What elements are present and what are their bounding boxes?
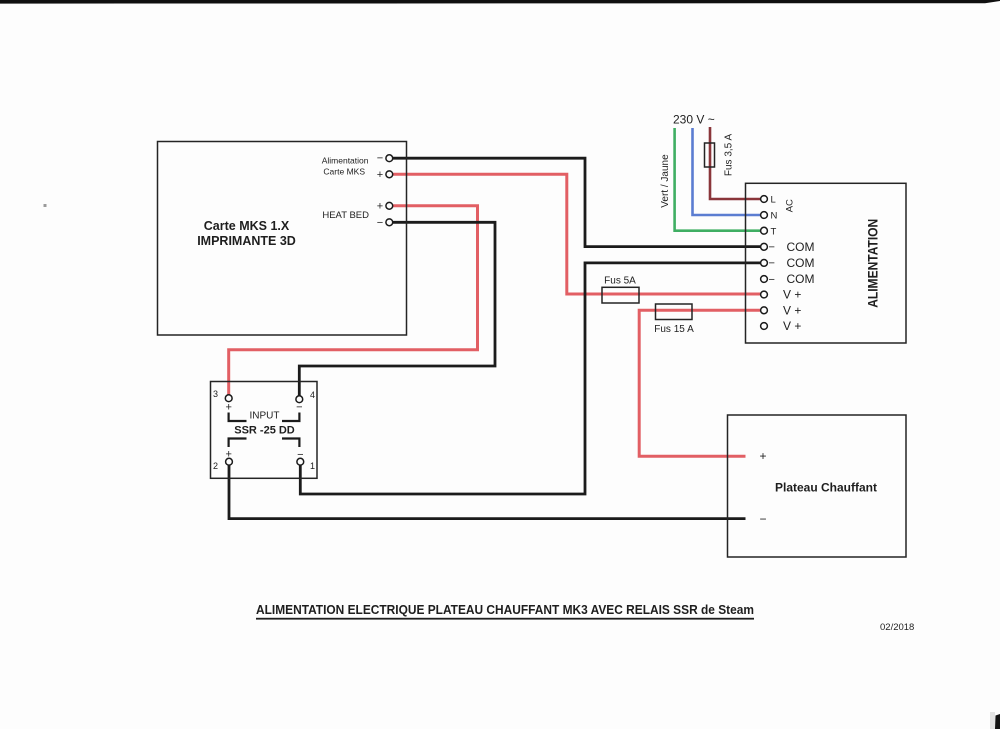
svg-text:SSR -25 DD: SSR -25 DD [234, 425, 295, 437]
svg-text:INPUT: INPUT [250, 410, 280, 421]
svg-text:Carte MKS: Carte MKS [323, 167, 365, 177]
svg-text:+: + [377, 201, 383, 213]
svg-text:ALIMENTATION ELECTRIQUE PLATEA: ALIMENTATION ELECTRIQUE PLATEAU CHAUFFAN… [256, 602, 754, 617]
svg-text:COM: COM [787, 272, 815, 286]
svg-text:AC: AC [785, 199, 796, 212]
svg-text:Fus 15 A: Fus 15 A [654, 324, 694, 335]
svg-text:−: − [297, 449, 303, 461]
svg-text:Fus 5A: Fus 5A [604, 276, 636, 287]
svg-text:3: 3 [213, 389, 218, 399]
svg-text:−: − [377, 217, 383, 229]
svg-text:COM: COM [787, 256, 815, 270]
svg-text:230 V ~: 230 V ~ [673, 113, 715, 127]
svg-text:Plateau Chauffant: Plateau Chauffant [775, 481, 877, 495]
svg-text:Fus 3,5 A: Fus 3,5 A [724, 134, 735, 177]
svg-text:4: 4 [310, 390, 315, 400]
svg-text:HEAT BED: HEAT BED [322, 210, 369, 221]
svg-text:−: − [769, 242, 775, 254]
svg-text:ALIMENTATION: ALIMENTATION [865, 219, 881, 308]
svg-text:+: + [225, 448, 231, 460]
svg-text:Carte MKS 1.X: Carte MKS 1.X [204, 219, 290, 233]
svg-text:02/2018: 02/2018 [880, 622, 914, 633]
svg-text:N: N [771, 211, 778, 222]
svg-text:L: L [771, 195, 776, 206]
svg-text:−: − [296, 402, 302, 414]
svg-text:2: 2 [213, 461, 218, 471]
svg-text:COM: COM [787, 240, 815, 254]
svg-text:+: + [759, 449, 766, 463]
svg-text:+: + [225, 402, 231, 414]
svg-text:1: 1 [310, 461, 315, 471]
svg-text:V +: V + [783, 304, 801, 318]
svg-text:Alimentation: Alimentation [322, 156, 369, 166]
svg-text:+: + [377, 169, 383, 181]
svg-text:−: − [769, 274, 775, 286]
svg-text:−: − [377, 153, 383, 165]
svg-text:T: T [771, 226, 777, 237]
svg-text:−: − [759, 512, 766, 526]
svg-text:IMPRIMANTE 3D: IMPRIMANTE 3D [197, 234, 296, 248]
svg-text:−: − [769, 258, 775, 270]
svg-text:V +: V + [783, 288, 801, 302]
svg-text:Vert / Jaune: Vert / Jaune [660, 154, 671, 208]
svg-text:V +: V + [783, 319, 801, 333]
